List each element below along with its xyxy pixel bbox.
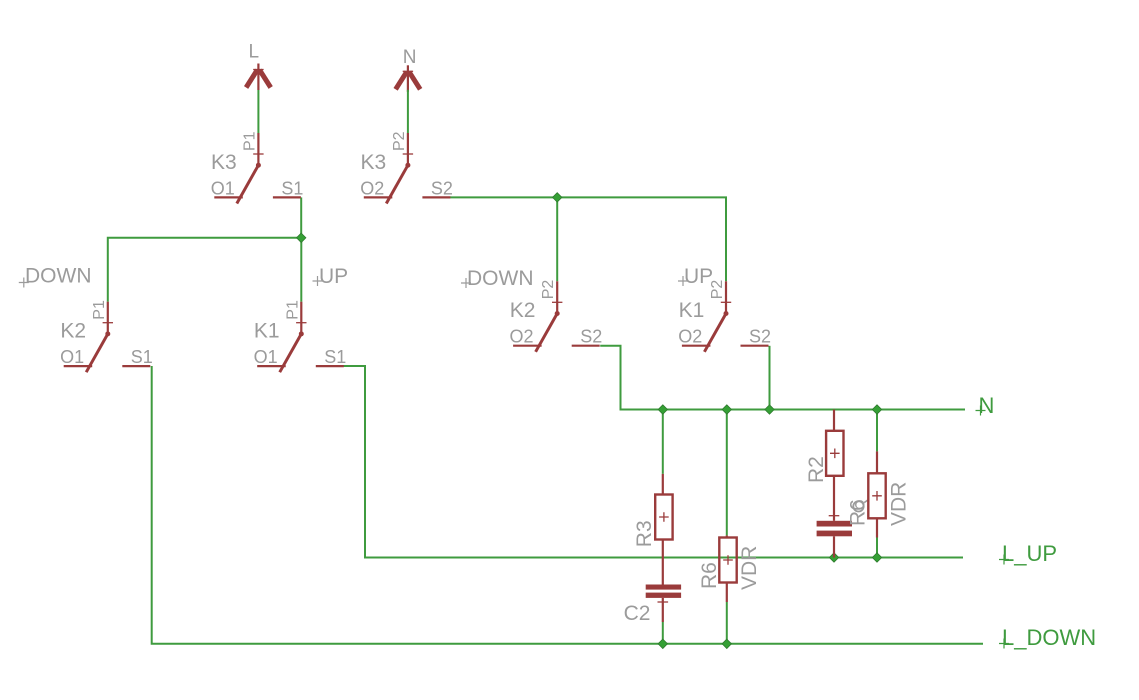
pin wire VDR right top bbox=[876, 451, 878, 473]
net label L_UP bbox=[999, 541, 1057, 566]
wire junction down to K1 P1 (net UP) bbox=[300, 238, 302, 302]
pin wire C2 bottom bbox=[662, 598, 664, 622]
overlapping ghost label mark bbox=[853, 501, 863, 511]
svg-text:O1: O1 bbox=[211, 178, 235, 198]
pin wire R3 bottom to C2 bbox=[662, 540, 664, 585]
wire K3 S2 to K1 P2 (net N) bbox=[450, 197, 726, 281]
wire N rail to R3 bbox=[662, 410, 664, 474]
svg-text:UP: UP bbox=[684, 265, 713, 288]
relay contact K1 (pins P1, O1, S1) bbox=[257, 302, 344, 373]
svg-text:VDR: VDR bbox=[888, 482, 911, 526]
wire K1 S1 down and right (net L_UP) bbox=[343, 366, 963, 558]
svg-text:L: L bbox=[249, 41, 260, 62]
resistor VDR (right) bbox=[868, 473, 885, 518]
svg-text:K1: K1 bbox=[254, 320, 280, 343]
pin wire R6 bottom bbox=[726, 583, 728, 603]
wire R6 VDR right to L_UP rail bbox=[876, 538, 878, 558]
svg-text:UP: UP bbox=[319, 265, 348, 288]
svg-text:DOWN: DOWN bbox=[467, 267, 534, 290]
net label DOWN (left) bbox=[19, 265, 92, 288]
supply arrow N bbox=[396, 65, 421, 92]
svg-text:N: N bbox=[403, 47, 417, 68]
svg-text:DOWN: DOWN bbox=[25, 265, 92, 288]
net label L_DOWN bbox=[999, 625, 1096, 650]
svg-text:P2: P2 bbox=[540, 280, 557, 300]
pin wire VDR right bottom bbox=[876, 518, 878, 537]
svg-text:O2: O2 bbox=[360, 178, 384, 198]
svg-text:O1: O1 bbox=[254, 347, 278, 367]
svg-text:R3: R3 bbox=[633, 520, 656, 547]
origin cross cap (R2 branch) bbox=[829, 515, 840, 517]
junction N rail / R6 branch bbox=[722, 405, 731, 414]
wire junction down to K2 P2 bbox=[556, 197, 558, 281]
junction N rail / K1 S2 bbox=[765, 405, 774, 414]
svg-text:P2: P2 bbox=[391, 131, 408, 151]
junction L_DOWN / R6 branch bbox=[722, 639, 731, 648]
relay contact K3 (pins P1, O1, S1) bbox=[214, 133, 301, 204]
junction L_DOWN / C2 branch bbox=[658, 639, 667, 648]
svg-text:S1: S1 bbox=[281, 178, 303, 198]
junction N rail / R3 branch bbox=[658, 405, 667, 414]
svg-text:R6: R6 bbox=[847, 499, 870, 526]
svg-text:R2: R2 bbox=[805, 456, 828, 483]
svg-text:S2: S2 bbox=[431, 178, 453, 198]
svg-text:K2: K2 bbox=[510, 299, 536, 322]
net label UP (right) bbox=[678, 265, 713, 288]
svg-text:S2: S2 bbox=[580, 327, 602, 347]
wire C2 to L_DOWN rail bbox=[662, 622, 664, 644]
wire K2 S2 down and right (net N bottom rail) bbox=[600, 346, 965, 410]
svg-text:L_UP: L_UP bbox=[1002, 541, 1057, 566]
relay contact K1 (pins P2, O2, S2) bbox=[682, 281, 769, 352]
svg-text:S1: S1 bbox=[324, 347, 346, 367]
supply arrow L bbox=[246, 64, 271, 91]
junction L_UP / R2-C branch bbox=[829, 553, 838, 562]
svg-text:K1: K1 bbox=[679, 299, 705, 322]
pin wire R2 top bbox=[833, 410, 835, 431]
wire N rail to R6 VDR right bbox=[876, 410, 878, 452]
wire K1 S2 down to N rail bbox=[769, 346, 771, 410]
resistor R6 VDR (middle) bbox=[719, 538, 736, 583]
wire K3 S1 down to junction bbox=[300, 197, 302, 237]
svg-text:P1: P1 bbox=[91, 300, 108, 320]
wire R6 VDR to L_DOWN rail bbox=[726, 602, 728, 644]
pin wire R6 top bbox=[726, 535, 728, 538]
relay contact K2 (pins P2, O2, S2) bbox=[513, 281, 600, 352]
pin wire R3 top bbox=[662, 474, 664, 495]
svg-text:L_DOWN: L_DOWN bbox=[1002, 625, 1096, 650]
svg-text:K3: K3 bbox=[361, 151, 387, 174]
net label DOWN (right) bbox=[461, 267, 534, 290]
junction at K1 P1 column bbox=[297, 233, 306, 242]
wire N rail to R6 VDR bbox=[726, 410, 728, 536]
resistor R3 bbox=[655, 495, 672, 540]
net label UP (left) bbox=[313, 265, 349, 288]
wire K2 S1 down and right (net L_DOWN) bbox=[152, 366, 983, 644]
pin wire cap bottom to L_UP bbox=[833, 536, 835, 557]
capacitor (R2 branch) bbox=[817, 521, 852, 537]
svg-text:K3: K3 bbox=[211, 151, 237, 174]
origin cross C2 bbox=[658, 601, 669, 603]
relay contact K3 (pins P2, O2, S2) bbox=[364, 133, 451, 204]
svg-text:S2: S2 bbox=[749, 327, 771, 347]
wire L-arrow to K3 P1 bbox=[257, 90, 259, 133]
svg-text:P1: P1 bbox=[284, 300, 301, 320]
wire N-arrow to K3 P2 bbox=[407, 90, 409, 133]
svg-text:O2: O2 bbox=[678, 327, 702, 347]
junction at K2 P2 column bbox=[553, 193, 562, 202]
junction N rail / VDR right branch bbox=[872, 405, 881, 414]
svg-text:C2: C2 bbox=[624, 602, 651, 625]
svg-text:O2: O2 bbox=[510, 327, 534, 347]
capacitor C2 bbox=[646, 585, 681, 598]
svg-text:P1: P1 bbox=[241, 131, 258, 151]
svg-text:O1: O1 bbox=[60, 347, 84, 367]
wire junction left to K2 P1 (net DOWN) bbox=[108, 238, 301, 302]
resistor R2 bbox=[826, 431, 843, 476]
svg-text:VDR: VDR bbox=[738, 546, 761, 590]
relay contact K2 (pins P1, O1, S1) bbox=[64, 302, 151, 373]
pin wire R2 bottom to cap bbox=[833, 476, 835, 521]
junction L_UP / VDR right branch bbox=[872, 553, 881, 562]
svg-text:K2: K2 bbox=[60, 320, 86, 343]
net label N bbox=[976, 393, 995, 418]
svg-text:R6: R6 bbox=[698, 562, 721, 589]
svg-text:S1: S1 bbox=[131, 347, 153, 367]
